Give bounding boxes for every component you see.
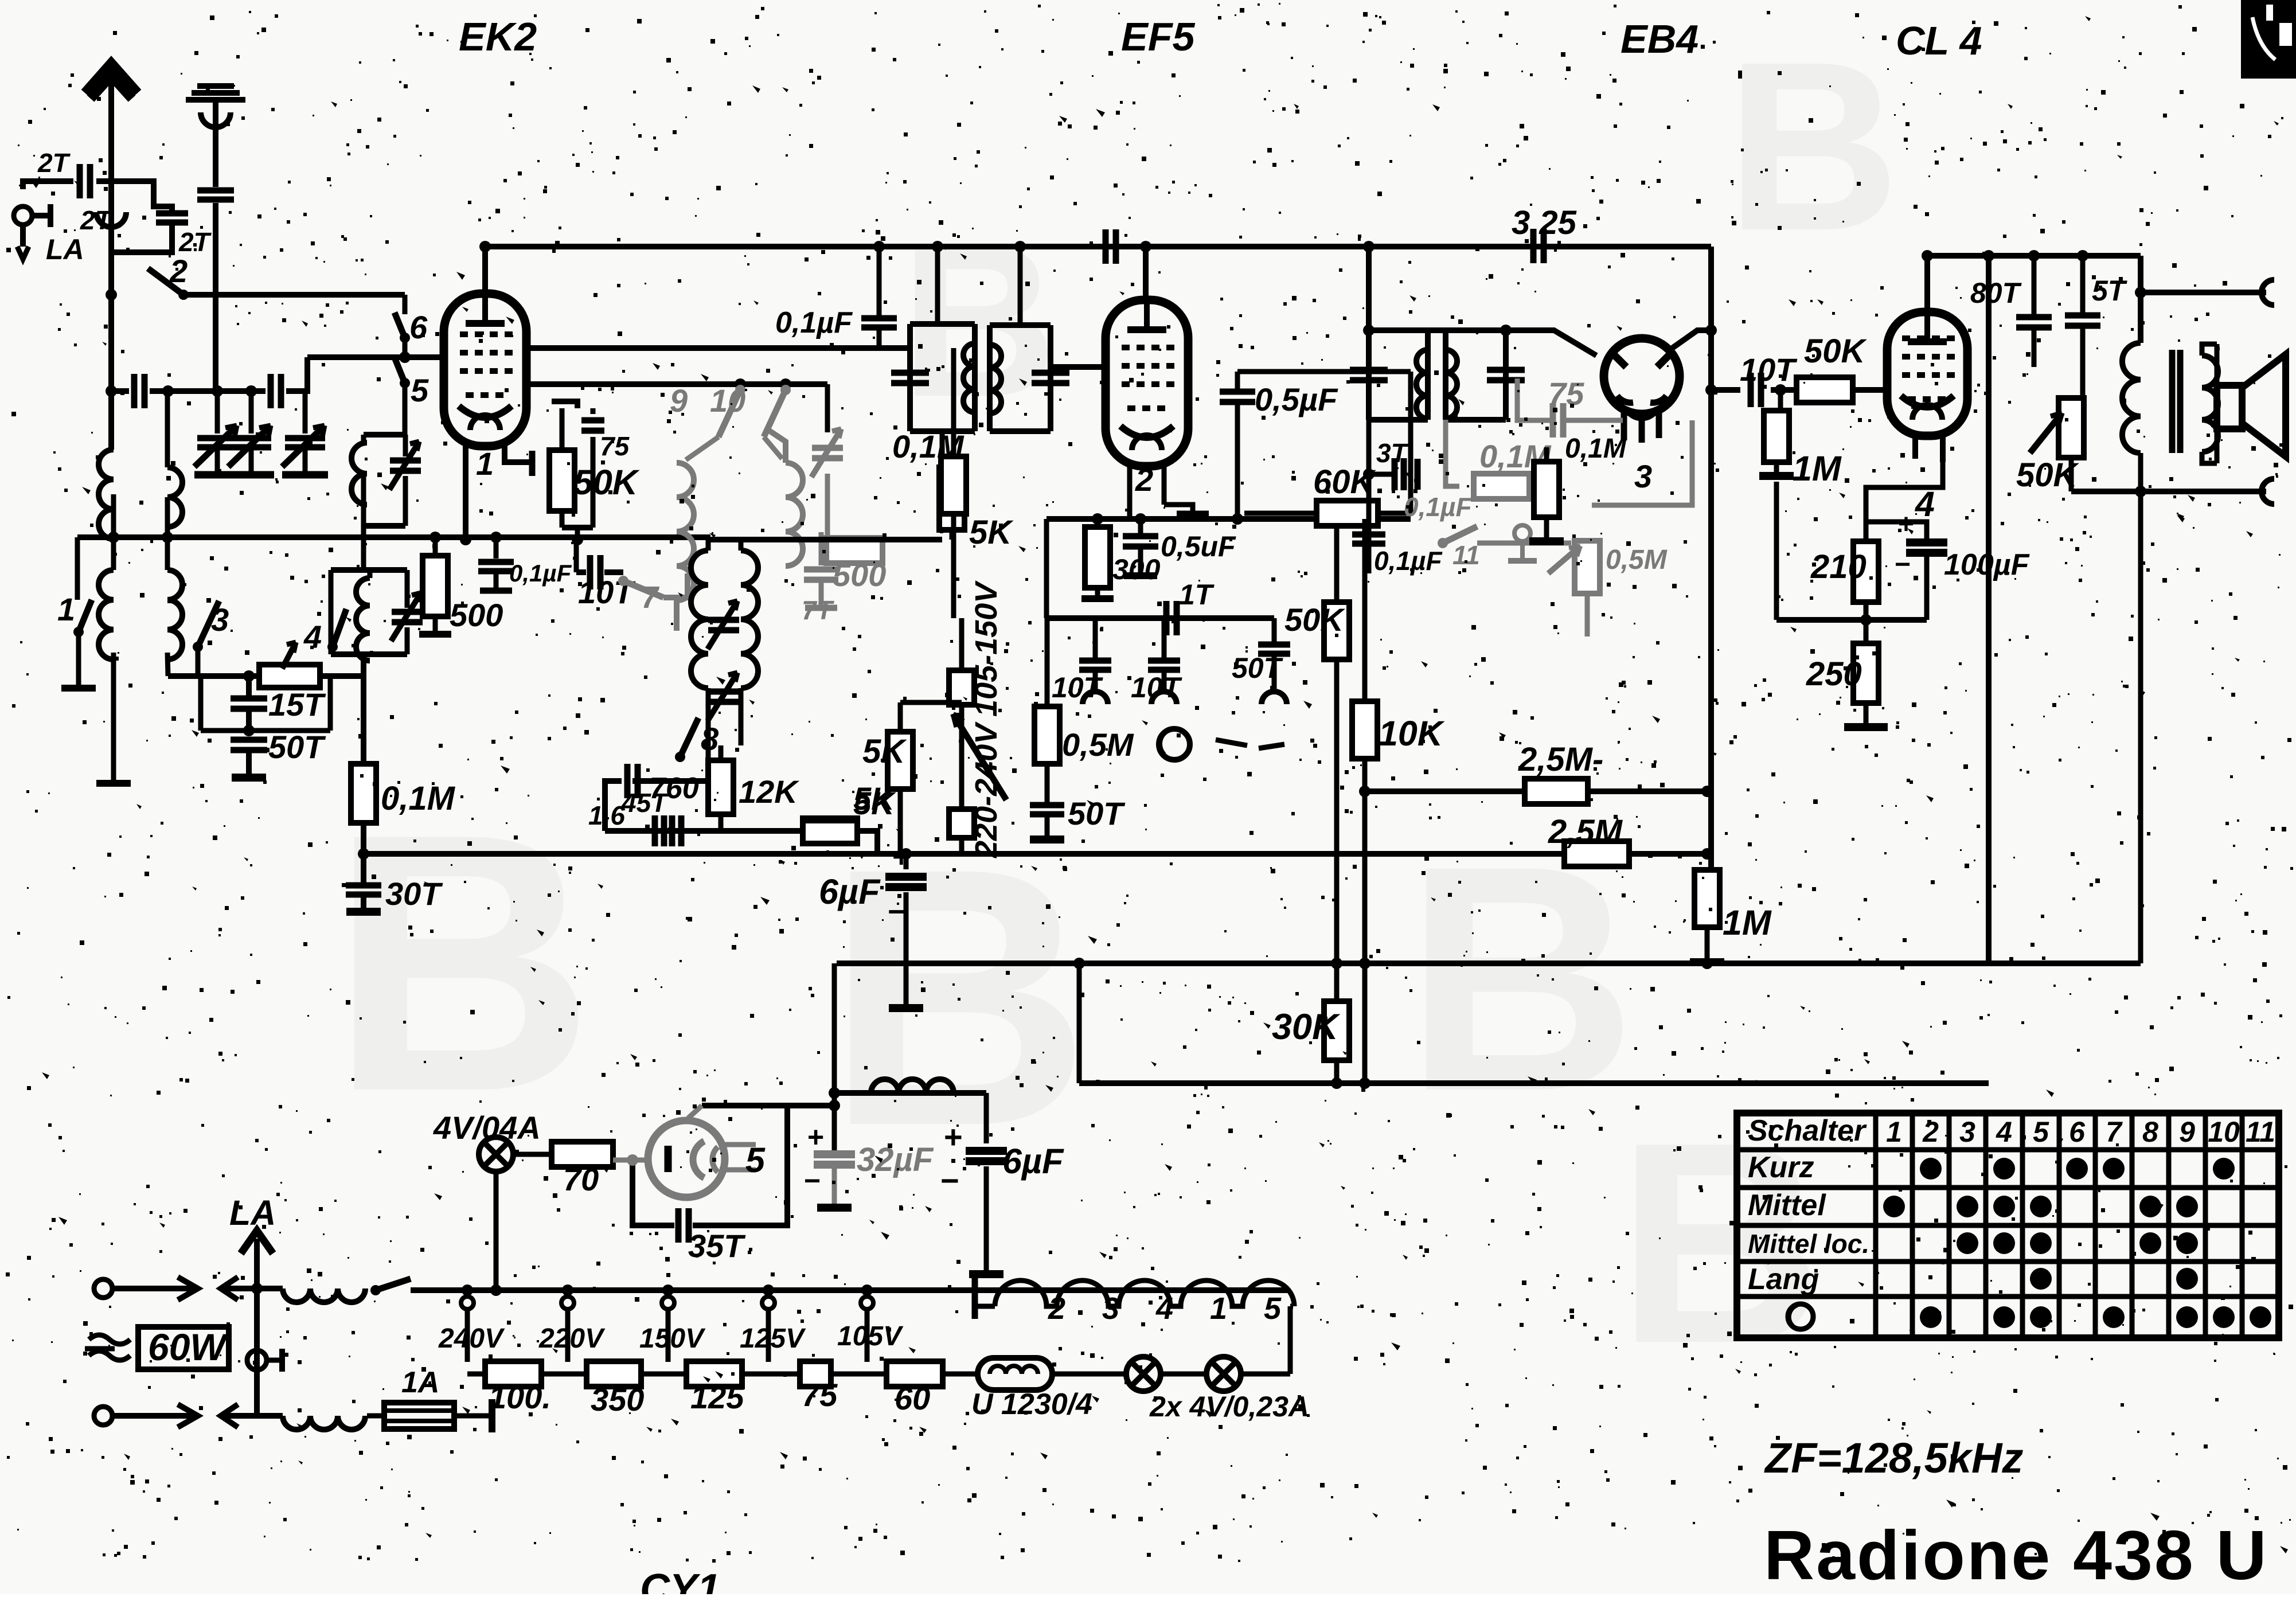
svg-text:8: 8: [2142, 1116, 2158, 1148]
svg-text:Schalter: Schalter: [1748, 1114, 1867, 1147]
svg-text:1: 1: [476, 446, 494, 482]
svg-text:2x 4V/0,23A: 2x 4V/0,23A: [1149, 1391, 1309, 1423]
svg-text:6µF: 6µF: [1002, 1142, 1064, 1181]
svg-text:7: 7: [2106, 1116, 2123, 1148]
svg-text:+: +: [807, 1121, 824, 1153]
svg-text:0,1µF: 0,1µF: [775, 306, 853, 339]
svg-text:0,1µF: 0,1µF: [1374, 546, 1443, 576]
svg-text:3: 3: [1634, 458, 1652, 494]
svg-text:125V: 125V: [740, 1323, 806, 1354]
svg-text:60: 60: [895, 1380, 930, 1416]
svg-text:Radione 438 U: Radione 438 U: [1764, 1516, 2268, 1594]
svg-text:5: 5: [1264, 1291, 1282, 1326]
svg-text:0,1µF: 0,1µF: [1404, 492, 1473, 522]
svg-text:Kurz: Kurz: [1748, 1151, 1814, 1184]
svg-text:100.: 100.: [489, 1379, 551, 1415]
svg-text:2: 2: [169, 253, 188, 289]
svg-text:1A: 1A: [401, 1366, 439, 1399]
svg-text:0,5M: 0,5M: [1062, 727, 1134, 763]
svg-text:2: 2: [1048, 1291, 1065, 1326]
svg-text:0,5µF: 0,5µF: [1255, 381, 1338, 417]
svg-text:10T: 10T: [1740, 352, 1798, 388]
svg-text:6: 6: [409, 309, 428, 345]
svg-text:10: 10: [2208, 1116, 2240, 1148]
svg-text:5K: 5K: [862, 733, 907, 770]
svg-text:11: 11: [1452, 540, 1480, 570]
svg-text:70: 70: [563, 1161, 599, 1197]
svg-text:3,25: 3,25: [1512, 204, 1577, 241]
svg-text:50T: 50T: [1068, 795, 1126, 831]
svg-text:5: 5: [745, 1141, 766, 1180]
svg-text:6µF: 6µF: [819, 872, 881, 911]
svg-text:LA: LA: [46, 233, 84, 265]
svg-text:Mittel loc.: Mittel loc.: [1748, 1229, 1869, 1259]
svg-text:3T: 3T: [1376, 438, 1409, 468]
svg-text:0,1µF: 0,1µF: [509, 560, 572, 587]
svg-text:240V: 240V: [438, 1323, 505, 1354]
svg-text:B: B: [1726, 12, 1900, 281]
svg-text:50T: 50T: [268, 729, 326, 765]
svg-text:125: 125: [690, 1379, 744, 1415]
svg-text:50K: 50K: [1284, 602, 1345, 638]
svg-text:−: −: [1895, 549, 1911, 580]
svg-text:10T: 10T: [1052, 671, 1104, 704]
svg-text:80T: 80T: [1970, 277, 2022, 309]
svg-text:1: 1: [57, 591, 75, 627]
svg-text:30K: 30K: [1272, 1007, 1341, 1047]
svg-text:1: 1: [1886, 1116, 1902, 1148]
svg-text:Lang: Lang: [1748, 1263, 1819, 1296]
svg-text:500: 500: [833, 557, 886, 593]
svg-text:45T: 45T: [621, 788, 669, 818]
svg-text:Mittel: Mittel: [1748, 1189, 1826, 1222]
svg-text:50K: 50K: [573, 463, 640, 502]
svg-text:EK2: EK2: [459, 14, 537, 59]
svg-text:5: 5: [411, 372, 429, 408]
svg-text:3: 3: [1102, 1291, 1119, 1326]
svg-text:+: +: [1898, 509, 1914, 540]
svg-text:0,1M: 0,1M: [1565, 434, 1627, 464]
svg-text:75: 75: [1548, 376, 1584, 412]
svg-text:2,5M: 2,5M: [1548, 813, 1623, 850]
svg-text:220V: 220V: [538, 1323, 606, 1354]
svg-text:11: 11: [2246, 1116, 2275, 1148]
svg-text:CL 4: CL 4: [1896, 18, 1982, 63]
svg-text:500: 500: [450, 597, 503, 633]
svg-text:ZF=128,5kHz: ZF=128,5kHz: [1764, 1434, 2023, 1482]
svg-text:7T: 7T: [802, 595, 835, 625]
svg-text:7: 7: [641, 580, 660, 615]
svg-text:220-240V: 220-240V: [969, 721, 1003, 858]
svg-text:4: 4: [303, 619, 322, 655]
svg-text:12K: 12K: [739, 774, 799, 810]
svg-text:105-150V: 105-150V: [969, 580, 1003, 717]
svg-text:30T: 30T: [385, 876, 443, 912]
svg-text:1M: 1M: [1723, 903, 1772, 942]
svg-text:4: 4: [1914, 485, 1935, 524]
svg-text:5K: 5K: [969, 514, 1014, 551]
svg-text:2,5M-: 2,5M-: [1518, 741, 1603, 778]
svg-text:CY1: CY1: [640, 1566, 720, 1594]
svg-text:35T: 35T: [688, 1228, 746, 1264]
svg-text:+: +: [944, 1119, 963, 1155]
svg-text:−: −: [804, 1165, 821, 1197]
svg-text:9: 9: [2179, 1116, 2195, 1148]
svg-text:75: 75: [600, 431, 630, 461]
svg-text:2T: 2T: [80, 205, 114, 235]
svg-text:15T: 15T: [268, 686, 326, 723]
svg-text:−: −: [888, 895, 906, 929]
svg-text:0,1M: 0,1M: [381, 780, 456, 817]
svg-text:210: 210: [1810, 548, 1867, 585]
svg-text:5K: 5K: [853, 780, 896, 817]
svg-text:U 1230/4: U 1230/4: [971, 1388, 1092, 1421]
svg-text:50K: 50K: [1804, 333, 1868, 370]
svg-text:4: 4: [1155, 1291, 1173, 1326]
svg-text:0,5M: 0,5M: [1606, 545, 1668, 575]
svg-text:350: 350: [591, 1381, 644, 1418]
svg-text:32µF: 32µF: [857, 1141, 934, 1178]
svg-text:3: 3: [1959, 1116, 1975, 1148]
svg-text:EB4: EB4: [1621, 17, 1698, 61]
svg-text:−: −: [940, 1162, 959, 1198]
svg-text:10: 10: [710, 382, 745, 419]
svg-text:EF5: EF5: [1121, 14, 1195, 59]
svg-text:1,6: 1,6: [588, 801, 625, 830]
svg-text:75: 75: [802, 1377, 838, 1413]
svg-text:1T: 1T: [1179, 579, 1215, 611]
svg-text:B: B: [900, 198, 1057, 442]
svg-text:1: 1: [1210, 1291, 1227, 1326]
svg-text:150V: 150V: [639, 1323, 706, 1354]
svg-text:3: 3: [211, 602, 229, 638]
svg-text:6: 6: [2069, 1116, 2086, 1148]
svg-text:5: 5: [2033, 1116, 2049, 1148]
svg-text:0,5uF: 0,5uF: [1161, 530, 1236, 563]
svg-text:4: 4: [1996, 1116, 2012, 1148]
svg-text:50T: 50T: [1232, 652, 1284, 684]
svg-text:300: 300: [1112, 553, 1161, 585]
svg-text:9: 9: [670, 382, 688, 419]
svg-text:250: 250: [1806, 655, 1862, 693]
svg-text:105V: 105V: [837, 1321, 904, 1352]
svg-text:2T: 2T: [37, 148, 71, 178]
svg-text:2: 2: [1135, 462, 1153, 498]
svg-text:10K: 10K: [1379, 714, 1445, 753]
svg-text:10T: 10T: [1131, 671, 1183, 704]
svg-text:4V/04A: 4V/04A: [433, 1110, 541, 1146]
svg-text:1M: 1M: [1793, 449, 1842, 488]
